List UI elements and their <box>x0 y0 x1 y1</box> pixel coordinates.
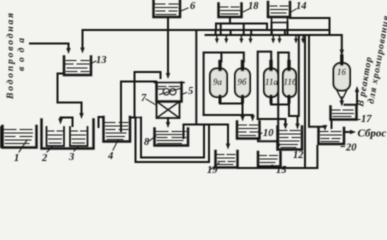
svg-text:6: 6 <box>190 1 196 12</box>
wire: tap water inlet to tank 13 <box>30 44 69 50</box>
stirrer float symbol in 5 <box>163 89 169 95</box>
pedestal of tank 14 <box>272 17 288 23</box>
outer container of tanks 2 and 3 <box>42 120 94 149</box>
tank 3 <box>70 127 88 146</box>
svg-text:Сброс: Сброс <box>358 128 387 140</box>
svg-text:2: 2 <box>41 153 48 164</box>
tank 15 <box>258 152 281 167</box>
svg-text:14: 14 <box>296 1 307 12</box>
column 9a <box>210 69 227 98</box>
svg-text:20: 20 <box>345 143 357 154</box>
wire: inner loop under tank 8 <box>141 118 204 158</box>
wire: 11b bottom to tank 12 <box>289 116 298 125</box>
svg-text:10: 10 <box>263 128 274 139</box>
svg-text:13: 13 <box>96 55 107 66</box>
wire: bus A drop into tank 13 <box>82 30 84 49</box>
wire: bus B <box>216 24 267 31</box>
wire: horizontal into tank 8 dip and to tank 19 <box>184 125 229 139</box>
svg-text:1: 1 <box>14 153 19 164</box>
wire: tank 17 to tank 20 <box>331 120 333 129</box>
svg-text:11б: 11б <box>284 77 298 87</box>
svg-text:19: 19 <box>207 165 218 176</box>
svg-text:16: 16 <box>337 67 347 77</box>
svg-text:9б: 9б <box>238 77 248 87</box>
wire: bus C end vertical to 11b header <box>298 35 300 116</box>
wire: header y115 into tank 10 <box>204 114 253 116</box>
wire: drop with elbow arrow into tank 20 <box>309 35 325 127</box>
label: Сброс with arrow <box>345 131 352 133</box>
svg-text:5: 5 <box>188 86 193 97</box>
wire: container to tank 4 rim <box>99 117 104 127</box>
wire: tank 4 rim pipe up to mixer 5 inlet <box>130 72 161 118</box>
left edge scan artifact <box>0 126 2 148</box>
tank 13 <box>64 57 91 76</box>
tank 18 <box>219 4 242 18</box>
svg-text:11а: 11а <box>265 77 279 87</box>
label: Водопроводная вода <box>5 13 27 100</box>
wire: dip tube into tank 4 from mixer 5 side <box>121 82 156 132</box>
column 11a <box>264 69 278 98</box>
filter box 7 <box>157 102 180 119</box>
tank 6 <box>154 1 181 18</box>
tank 4 <box>104 117 131 142</box>
wire: tank 4 rim pipe down under tank 8 (outer loop) <box>136 118 210 163</box>
tank 12 <box>278 127 303 150</box>
arrows from bus C down to troughs <box>217 36 303 41</box>
column 11b <box>283 69 296 98</box>
paper background <box>0 0 387 179</box>
column 16 <box>334 63 351 91</box>
svg-text:15: 15 <box>276 165 287 176</box>
svg-text:17: 17 <box>361 114 372 125</box>
wire: return line from tank 19 to tank 20 <box>238 146 318 168</box>
wire: bus C with connectors <box>206 34 310 36</box>
wire: tank 13 outlet to tank 3 <box>58 74 82 115</box>
wire: tank 14 stubs to bus C <box>272 23 288 36</box>
svg-text:18: 18 <box>248 1 259 12</box>
wire: tank 10 outlet to tank 15 feed <box>258 139 278 141</box>
tank 19 <box>216 151 238 168</box>
wire: header y119 into tank 12 <box>258 119 286 125</box>
mixer vessel 5 <box>157 83 182 102</box>
wire: bus C drop down to return line <box>304 35 306 168</box>
tank 14 <box>268 2 290 17</box>
svg-text:9а: 9а <box>213 77 223 87</box>
tank 1 <box>3 126 37 148</box>
tank 8 <box>155 129 189 146</box>
tank 2 <box>47 127 65 146</box>
wire: to reactor line with up arrow <box>345 90 358 105</box>
tank 10 <box>237 122 260 139</box>
wire: overflow pipe tank 3 to tank 2 <box>61 118 73 127</box>
wire: tank 18 stub down <box>229 17 231 24</box>
label: В реактор для хромирования <box>356 15 387 109</box>
wire: box 7 down to tank 8 <box>167 118 169 124</box>
wire: trough frame F2 over column 11a <box>258 52 272 119</box>
svg-text:3: 3 <box>68 152 74 163</box>
wire: bus A horizontal <box>83 29 330 31</box>
svg-text:8: 8 <box>144 137 150 148</box>
tank 20 <box>319 128 345 144</box>
wire: vertical from bus A down right of box 7 <box>195 30 197 125</box>
column 9b <box>235 69 250 98</box>
svg-text:12: 12 <box>293 150 304 161</box>
wire: trough frame F1 over columns 9a 9b <box>204 53 244 116</box>
wire: tank 14 right line to column 16 <box>290 18 342 53</box>
wire: F3 left leg down to tank 15 <box>277 53 279 146</box>
wire: tank 6 down to mixer 5 <box>167 17 169 74</box>
svg-text:4: 4 <box>107 151 113 162</box>
tank 17 <box>331 107 357 120</box>
wire: trough frame F3 over column 11b <box>278 53 289 62</box>
